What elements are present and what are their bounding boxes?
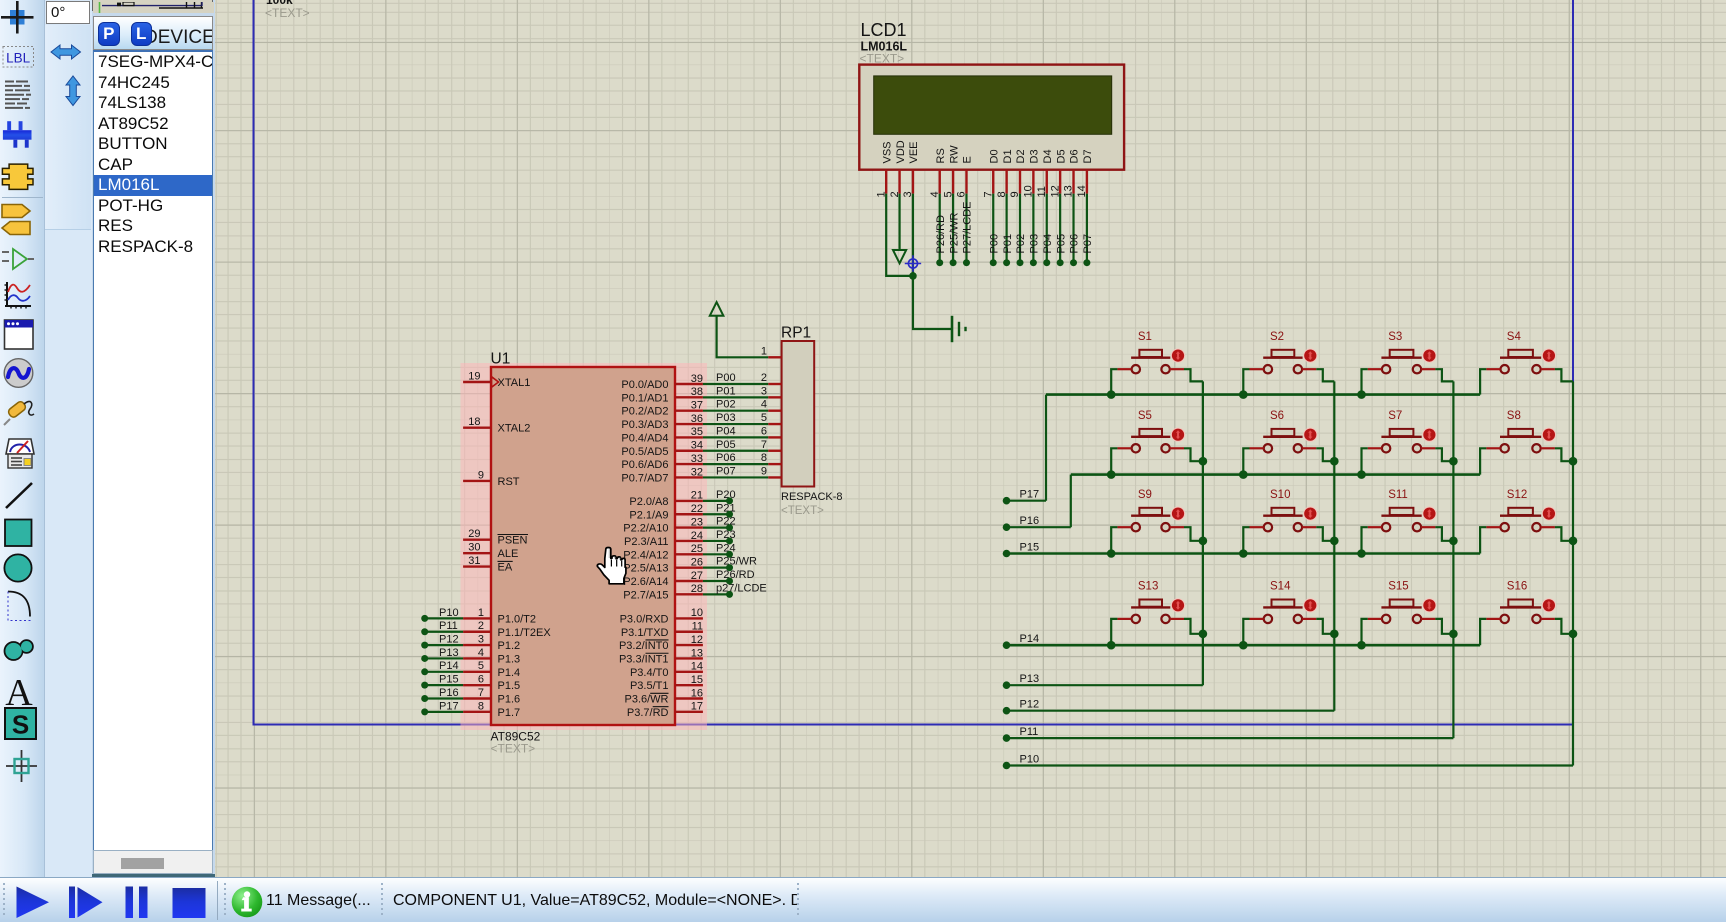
svg-text:29: 29 xyxy=(468,528,480,540)
svg-text:S8: S8 xyxy=(1507,410,1521,422)
junction S3 left on row bus xyxy=(1357,390,1366,399)
svg-text:P00: P00 xyxy=(716,372,736,384)
power terminal (up arrow) at RP1 pin 1 xyxy=(710,302,724,316)
svg-text:P03: P03 xyxy=(716,412,736,424)
svg-text:2: 2 xyxy=(761,372,767,384)
LCD1 pin stubs xyxy=(886,170,1087,194)
svg-text:RST: RST xyxy=(498,476,520,488)
svg-text:P13: P13 xyxy=(1020,673,1040,685)
svg-text:P04: P04 xyxy=(1042,234,1054,254)
junction S15 right on column xyxy=(1449,630,1458,639)
svg-text:P17: P17 xyxy=(1020,489,1040,501)
svg-text:P0.6/AD6: P0.6/AD6 xyxy=(621,459,668,471)
svg-text:XTAL2: XTAL2 xyxy=(498,423,531,435)
svg-text:P2.7/A15: P2.7/A15 xyxy=(623,589,668,601)
junction node on VEE wire xyxy=(909,272,917,280)
svg-text:S4: S4 xyxy=(1507,331,1522,343)
svg-text:P3.1/TXD: P3.1/TXD xyxy=(621,627,669,639)
junction S9 right on column xyxy=(1199,537,1208,546)
riser row2 to P16 wire xyxy=(1007,475,1071,528)
U1 right pin names xyxy=(619,379,669,719)
toolbar icon: wire label LBL xyxy=(3,47,34,68)
svg-text:18: 18 xyxy=(468,416,480,428)
sheet border (blue) xyxy=(254,0,1574,725)
svg-text:P20: P20 xyxy=(716,489,736,501)
wires from LCD1 pins 4-14 to net labels xyxy=(940,194,1087,263)
svg-text:1: 1 xyxy=(478,607,484,619)
svg-text:16: 16 xyxy=(691,687,703,699)
svg-text:1: 1 xyxy=(761,345,767,357)
svg-text:S: S xyxy=(12,710,29,740)
svg-text:27: 27 xyxy=(691,570,703,582)
svg-text:5: 5 xyxy=(478,660,484,672)
wire end dots at U1 left xyxy=(421,615,428,715)
wire end dots on P2.x nets xyxy=(726,497,733,597)
RP1 <TEXT> placeholder xyxy=(781,505,824,517)
mcu U1 AT89C52 body xyxy=(491,367,675,725)
svg-text:P2.2/A10: P2.2/A10 xyxy=(623,523,668,535)
svg-text:8: 8 xyxy=(761,452,767,464)
wire S3 left terminal to row bus xyxy=(1362,369,1368,394)
wire S7 right terminal to column xyxy=(1435,448,1453,461)
toolbar icon: component/subcircuit (yellow) xyxy=(2,164,33,189)
svg-text:P02: P02 xyxy=(1015,234,1027,254)
toolbar icon: 2D box xyxy=(5,520,32,547)
svg-text:LCD1: LCD1 xyxy=(861,20,907,40)
svg-text:P26/RD: P26/RD xyxy=(935,215,947,254)
push button S16 xyxy=(1486,581,1556,623)
U1 left pin numbers xyxy=(468,370,484,712)
svg-text:S14: S14 xyxy=(1270,581,1291,593)
ground symbol (rotated) xyxy=(952,316,966,342)
wire S15 right terminal to column xyxy=(1435,619,1453,634)
svg-text:P2.5/A13: P2.5/A13 xyxy=(623,563,668,575)
column wire 3 (net P11) xyxy=(1007,381,1454,738)
svg-text:<TEXT>: <TEXT> xyxy=(265,6,310,20)
riser row1 to P17 wire xyxy=(1007,395,1047,501)
svg-text:D3: D3 xyxy=(1029,149,1041,163)
svg-text:P3.2/INT0: P3.2/INT0 xyxy=(619,640,669,652)
toolbar icon: 2D closed path xyxy=(5,640,33,660)
wire S12 right terminal to column xyxy=(1555,527,1573,541)
svg-text:39: 39 xyxy=(691,373,703,385)
svg-text:31: 31 xyxy=(468,555,480,567)
junction S6 right on column xyxy=(1330,457,1339,466)
svg-text:17: 17 xyxy=(691,701,703,713)
svg-text:13: 13 xyxy=(691,647,703,659)
stop button xyxy=(173,888,206,918)
svg-text:P1.7: P1.7 xyxy=(498,707,521,719)
push button S1 xyxy=(1117,331,1185,373)
push button S3 xyxy=(1368,331,1437,373)
svg-text:P1.1/T2EX: P1.1/T2EX xyxy=(498,627,552,639)
wires U1 P1.0-P1.7 to net labels P10-P17 xyxy=(425,618,463,711)
svg-text:P27/LCDE: P27/LCDE xyxy=(962,202,974,254)
svg-text:S6: S6 xyxy=(1270,410,1284,422)
column wire 2 (net P12) xyxy=(1007,381,1335,710)
svg-text:22: 22 xyxy=(691,503,703,515)
svg-text:36: 36 xyxy=(691,413,703,425)
toolbar icon: terminals (yellow tags) xyxy=(2,205,30,235)
svg-text:P24: P24 xyxy=(716,542,736,554)
wire S4 left terminal to row bus xyxy=(1480,369,1486,394)
svg-text:P17: P17 xyxy=(439,700,459,712)
junction S10 right on column xyxy=(1330,537,1339,546)
svg-text:P1.4: P1.4 xyxy=(498,667,521,679)
svg-text:PSEN: PSEN xyxy=(498,535,528,547)
svg-text:P1.5: P1.5 xyxy=(498,680,521,692)
wire S13 left terminal to row bus xyxy=(1111,619,1117,645)
svg-text:P2.6/A14: P2.6/A14 xyxy=(623,576,668,588)
junction S6 left on row bus xyxy=(1239,470,1248,479)
svg-text:23: 23 xyxy=(691,516,703,528)
svg-text:7: 7 xyxy=(478,687,484,699)
svg-text:P1.3: P1.3 xyxy=(498,653,521,665)
toolbar icon: 2D symbol S xyxy=(5,708,36,740)
push button S8 xyxy=(1486,410,1556,452)
svg-text:26: 26 xyxy=(691,556,703,568)
wire S8 left terminal to row bus xyxy=(1480,448,1486,474)
svg-text:8: 8 xyxy=(478,700,484,712)
wire S11 right terminal to column xyxy=(1435,527,1453,541)
wire S4 right terminal to column xyxy=(1555,369,1573,381)
svg-text:VSS: VSS xyxy=(881,141,893,163)
wire S12 left terminal to row bus xyxy=(1480,527,1486,553)
net labels P20-P24 P25/WR P26/RD p27/LCDE xyxy=(716,489,767,594)
push button S9 xyxy=(1117,489,1185,531)
wire S16 right terminal to column xyxy=(1555,619,1573,634)
svg-text:P0.1/AD1: P0.1/AD1 xyxy=(621,392,668,404)
RP1 value label RESPACK-8 xyxy=(781,491,843,503)
wire S9 right terminal to column xyxy=(1184,527,1203,541)
step button xyxy=(69,887,75,919)
junction S11 right on column xyxy=(1449,537,1458,546)
resistor pack RP1 body xyxy=(782,341,815,487)
svg-text:S9: S9 xyxy=(1138,489,1152,501)
RP1 pin stubs 1-9 xyxy=(768,357,781,477)
toolbar icon: 2D line xyxy=(6,483,32,508)
toolbar icon: virtual instrument (meter) xyxy=(6,439,34,468)
svg-text:S3: S3 xyxy=(1388,331,1402,343)
svg-text:VEE: VEE xyxy=(908,141,920,163)
LCD1 pin name labels VSS VDD VEE RS RW E D0-D7 xyxy=(881,140,1094,163)
wire power arrow to RP1 pin1 xyxy=(717,316,769,358)
svg-text:P26/RD: P26/RD xyxy=(716,569,755,581)
svg-text:S16: S16 xyxy=(1507,581,1527,593)
LCD screen area xyxy=(874,76,1112,134)
wire S10 left terminal to row bus xyxy=(1243,527,1249,553)
wire S5 right terminal to column xyxy=(1184,448,1203,461)
push button S6 xyxy=(1250,410,1318,452)
svg-text:P3.7/RD: P3.7/RD xyxy=(627,707,669,719)
svg-text:LBL: LBL xyxy=(6,51,31,66)
push button S11 xyxy=(1368,489,1437,531)
svg-text:D6: D6 xyxy=(1069,149,1081,163)
push button S13 xyxy=(1117,581,1185,623)
svg-text:P3.0/RXD: P3.0/RXD xyxy=(620,613,669,625)
wire S7 left terminal to row bus xyxy=(1362,448,1368,474)
svg-text:P3.3/INT1: P3.3/INT1 xyxy=(619,653,669,665)
wire S1 right terminal to column xyxy=(1184,369,1203,381)
push button S5 xyxy=(1117,410,1185,452)
junction S13 right on column xyxy=(1199,630,1208,639)
column wire 4 (net P10) xyxy=(1007,381,1574,765)
junction S2 left on row bus xyxy=(1239,390,1248,399)
no-ERC marker (blue crosshair) xyxy=(905,255,921,271)
svg-text:5: 5 xyxy=(761,412,767,424)
toolbar icon: device pin xyxy=(2,249,34,269)
toolbar icon: 2D markers xyxy=(6,750,37,782)
svg-text:4: 4 xyxy=(761,399,767,411)
RP1 pin numbers 1-9 xyxy=(761,345,767,477)
svg-text:P1.6: P1.6 xyxy=(498,694,521,706)
push button S12 xyxy=(1486,489,1556,531)
svg-text:P12: P12 xyxy=(1020,699,1040,711)
svg-text:P14: P14 xyxy=(1020,633,1040,645)
svg-text:30: 30 xyxy=(468,542,480,554)
junction S15 left on row bus xyxy=(1357,641,1366,650)
svg-text:P2.0/A8: P2.0/A8 xyxy=(629,496,668,508)
svg-text:33: 33 xyxy=(691,453,703,465)
svg-text:ALE: ALE xyxy=(498,548,519,560)
wires U1 P0.0-P0.7 to RP1 (nets P00-P07) xyxy=(703,384,768,477)
row bus 4 (net P14) xyxy=(1007,644,1481,647)
toolbar divider xyxy=(2,197,43,199)
svg-text:P04: P04 xyxy=(716,425,736,437)
wire LCD1 VSS pin1 to VEE net xyxy=(886,194,913,276)
svg-text:10: 10 xyxy=(691,607,703,619)
junction S7 right on column xyxy=(1449,457,1458,466)
svg-text:25: 25 xyxy=(691,543,703,555)
wire S10 right terminal to column xyxy=(1316,527,1334,541)
svg-text:D4: D4 xyxy=(1042,149,1054,163)
svg-text:P0.7/AD7: P0.7/AD7 xyxy=(621,472,668,484)
svg-text:P11: P11 xyxy=(439,620,458,632)
junction S16 right on column xyxy=(1569,630,1578,639)
wire LCD1 VEE pin3 down to ground xyxy=(913,194,952,329)
wire end junction dots below LCD1 xyxy=(936,259,1090,266)
svg-text:6: 6 xyxy=(761,425,767,437)
net labels P26/RD P25/WR P27/LCDE P00-P07 (rotated) xyxy=(935,202,1094,254)
svg-text:P12: P12 xyxy=(439,634,459,646)
junction S1 left on row bus xyxy=(1107,390,1116,399)
svg-text:7: 7 xyxy=(761,439,767,451)
mirror vertical arrow xyxy=(66,76,80,106)
svg-text:S2: S2 xyxy=(1270,331,1284,343)
wire S2 right terminal to column xyxy=(1316,369,1334,381)
svg-text:P14: P14 xyxy=(439,660,459,672)
svg-text:D7: D7 xyxy=(1082,149,1094,163)
junction S5 right on column xyxy=(1199,457,1208,466)
svg-text:P06: P06 xyxy=(716,452,736,464)
svg-text:14: 14 xyxy=(691,661,703,673)
svg-text:35: 35 xyxy=(691,426,703,438)
net labels P17 P16 P15 P14 P13 P12 P11 P10 and terminal dots xyxy=(1003,489,1039,770)
row bus 3 (net P15) xyxy=(1007,552,1481,555)
svg-text:D0: D0 xyxy=(988,149,1000,163)
U1 left pin names xyxy=(498,377,552,719)
toolbar icon: 2D arc xyxy=(8,592,31,621)
wire S3 right terminal to column xyxy=(1435,369,1453,381)
push button S4 xyxy=(1486,331,1556,373)
svg-text:XTAL1: XTAL1 xyxy=(498,377,531,389)
svg-text:19: 19 xyxy=(468,370,480,382)
svg-text:S11: S11 xyxy=(1388,489,1408,501)
svg-text:9: 9 xyxy=(761,465,767,477)
svg-text:D5: D5 xyxy=(1055,149,1067,163)
svg-text:34: 34 xyxy=(691,440,703,452)
LCD LCD1 value label LM016L xyxy=(861,40,908,54)
svg-text:U1: U1 xyxy=(491,351,511,368)
wire S6 right terminal to column xyxy=(1316,448,1334,461)
svg-text:P22: P22 xyxy=(716,516,736,528)
svg-text:P13: P13 xyxy=(439,647,459,659)
net labels P00-P07 between U1 and RP1 xyxy=(716,372,736,477)
push button S10 xyxy=(1250,489,1318,531)
svg-text:P11: P11 xyxy=(1020,726,1039,738)
junction S11 left on row bus xyxy=(1357,549,1366,558)
wire S14 left terminal to row bus xyxy=(1243,619,1249,645)
svg-text:S1: S1 xyxy=(1138,331,1152,343)
svg-text:P01: P01 xyxy=(716,385,736,397)
wire S14 right terminal to column xyxy=(1316,619,1334,634)
svg-text:RP1: RP1 xyxy=(781,325,811,342)
junction S14 left on row bus xyxy=(1239,641,1248,650)
U1 right pin stubs xyxy=(675,384,703,712)
wire S13 right terminal to column xyxy=(1184,619,1203,634)
push button S15 xyxy=(1368,581,1437,623)
row bus 1 (net P17) xyxy=(1046,393,1480,396)
svg-text:3: 3 xyxy=(761,385,767,397)
LCD1 pin numbers 1-14 xyxy=(875,185,1088,197)
svg-text:P3.6/WR: P3.6/WR xyxy=(624,694,668,706)
svg-text:P07: P07 xyxy=(716,465,736,477)
svg-text:VDD: VDD xyxy=(895,140,907,163)
svg-text:32: 32 xyxy=(691,466,703,478)
wire S16 left terminal to row bus xyxy=(1480,619,1486,645)
svg-text:21: 21 xyxy=(691,490,703,502)
svg-text:3: 3 xyxy=(478,634,484,646)
svg-text:P0.5/AD5: P0.5/AD5 xyxy=(621,446,668,458)
svg-text:P0.4/AD4: P0.4/AD4 xyxy=(621,432,668,444)
toolbar icon: text script xyxy=(5,82,31,108)
svg-text:P15: P15 xyxy=(439,674,459,686)
svg-text:P10: P10 xyxy=(439,607,459,619)
svg-text:38: 38 xyxy=(691,386,703,398)
toolbar icon: junction dot mode xyxy=(1,1,34,34)
wire S8 right terminal to column xyxy=(1555,448,1573,461)
toolbar icon: buses/2-pin device xyxy=(3,121,32,148)
svg-text:P0.0/AD0: P0.0/AD0 xyxy=(621,379,668,391)
net labels P10-P17 at U1 left xyxy=(439,607,459,712)
svg-text:S13: S13 xyxy=(1138,581,1158,593)
wire S2 left terminal to row bus xyxy=(1243,369,1249,394)
svg-text:P05: P05 xyxy=(716,439,736,451)
mcu U1 selection highlight halo xyxy=(461,363,708,730)
svg-text:S12: S12 xyxy=(1507,489,1527,501)
svg-text:<TEXT>: <TEXT> xyxy=(491,742,536,756)
svg-text:P2.1/A9: P2.1/A9 xyxy=(629,509,668,521)
svg-text:RW: RW xyxy=(948,145,960,164)
push button S2 xyxy=(1250,331,1318,373)
svg-text:9: 9 xyxy=(478,469,484,481)
toolbar icon: generator xyxy=(4,359,33,388)
property placeholder <TEXT> top-left xyxy=(265,6,310,20)
svg-text:P0.3/AD3: P0.3/AD3 xyxy=(621,419,668,431)
svg-text:6: 6 xyxy=(478,674,484,686)
svg-text:RESPACK-8: RESPACK-8 xyxy=(781,491,843,503)
junction S13 left on row bus xyxy=(1107,641,1116,650)
LCD display LCD1 (LM016L) body xyxy=(859,65,1124,170)
pause button xyxy=(126,887,134,919)
RP1 reference label xyxy=(781,325,811,342)
svg-text:P21: P21 xyxy=(716,502,736,514)
svg-text:S7: S7 xyxy=(1388,410,1402,422)
junction S14 right on column xyxy=(1330,630,1339,639)
toolbar icon: tape recorder window xyxy=(5,320,34,349)
wire S11 left terminal to row bus xyxy=(1362,527,1368,553)
svg-text:P0.2/AD2: P0.2/AD2 xyxy=(621,406,668,418)
svg-text:P23: P23 xyxy=(716,529,736,541)
wire S9 left terminal to row bus xyxy=(1111,527,1117,553)
svg-text:P2.3/A11: P2.3/A11 xyxy=(624,536,668,548)
U1 left pin stubs xyxy=(463,382,491,712)
junction S7 left on row bus xyxy=(1357,470,1366,479)
svg-text:P16: P16 xyxy=(439,687,459,699)
svg-text:P25/WR: P25/WR xyxy=(716,556,757,568)
play button xyxy=(17,887,50,919)
svg-text:D2: D2 xyxy=(1015,149,1027,163)
wire S1 left terminal to row bus xyxy=(1111,369,1117,394)
wire S5 left terminal to row bus xyxy=(1111,448,1117,474)
svg-text:S10: S10 xyxy=(1270,489,1290,501)
junction S10 left on row bus xyxy=(1239,549,1248,558)
svg-text:P00: P00 xyxy=(988,234,1000,254)
U1 value label AT89C52 xyxy=(491,730,541,744)
svg-text:RS: RS xyxy=(935,148,947,163)
svg-text:P25/WR: P25/WR xyxy=(948,212,960,253)
svg-text:S5: S5 xyxy=(1138,410,1152,422)
toolbar icon: analysis graph xyxy=(5,282,32,309)
junction S8 right on column xyxy=(1569,457,1578,466)
power terminal (down arrow) on VDD xyxy=(893,250,906,263)
partial label 100k (clipped at top) xyxy=(266,0,293,7)
svg-text:P1.2: P1.2 xyxy=(498,640,521,652)
svg-text:P10: P10 xyxy=(1020,754,1040,766)
svg-text:15: 15 xyxy=(691,674,703,686)
push button S7 xyxy=(1368,410,1437,452)
svg-text:P2.4/A12: P2.4/A12 xyxy=(623,549,668,561)
svg-text:2: 2 xyxy=(478,620,484,632)
svg-text:P3.5/T1: P3.5/T1 xyxy=(630,680,669,692)
junction S9 left on row bus xyxy=(1107,549,1116,558)
svg-text:P15: P15 xyxy=(1020,542,1040,554)
push button S14 xyxy=(1250,581,1318,623)
LCD LCD1 <TEXT> placeholder xyxy=(860,52,905,66)
U1 <TEXT> placeholder xyxy=(491,742,536,756)
wire S6 left terminal to row bus xyxy=(1243,448,1249,474)
row bus 2 (net P16) xyxy=(1071,473,1480,476)
column wire 1 (net P13) xyxy=(1007,381,1203,685)
svg-text:E: E xyxy=(962,156,974,163)
svg-text:P02: P02 xyxy=(716,399,736,411)
svg-text:P1.0/T2: P1.0/T2 xyxy=(498,613,537,625)
wire S15 left terminal to row bus xyxy=(1362,619,1368,645)
svg-text:S15: S15 xyxy=(1388,581,1408,593)
wires U1 P2.x to net labels xyxy=(703,501,730,594)
svg-text:37: 37 xyxy=(691,400,703,412)
svg-text:P05: P05 xyxy=(1055,234,1067,254)
